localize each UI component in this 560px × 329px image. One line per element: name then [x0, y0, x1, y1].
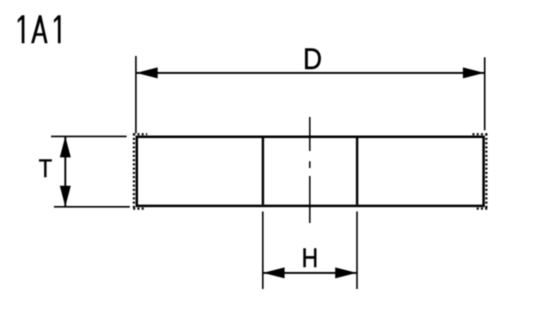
abrasive dots bottom-left corner	[133, 208, 144, 210]
wheel body outline	[137, 137, 484, 206]
D arrowhead left	[136, 67, 158, 78]
bore line right	[356, 138, 358, 205]
abrasive dots top-left corner	[133, 133, 147, 135]
abrasive dotted edge right	[485, 134, 487, 210]
bore line left	[262, 138, 264, 205]
H extension line left	[262, 212, 264, 290]
H arrowhead left	[263, 267, 285, 278]
H extension line right	[356, 212, 358, 290]
abrasive dotted edge left	[133, 134, 135, 210]
svg-text:T: T	[39, 155, 53, 183]
D extension line right	[484, 57, 486, 130]
T dimension line	[64, 137, 66, 207]
T arrowhead top	[60, 136, 71, 157]
T extension line bottom	[54, 206, 130, 208]
T extension line top	[51, 135, 127, 137]
D arrowhead right	[463, 67, 485, 78]
label 1A1	[18, 15, 61, 43]
D extension line left	[135, 56, 137, 133]
H dimension line	[263, 272, 356, 274]
T arrowhead bottom	[60, 186, 71, 207]
svg-text:D: D	[303, 43, 322, 76]
centerline dash-dot	[309, 117, 311, 223]
H arrowhead right	[335, 267, 357, 278]
svg-text:H: H	[302, 242, 319, 273]
D dimension line	[137, 72, 485, 74]
abrasive dots top-right corner	[472, 133, 487, 135]
abrasive dots bottom-right corner	[476, 208, 487, 210]
